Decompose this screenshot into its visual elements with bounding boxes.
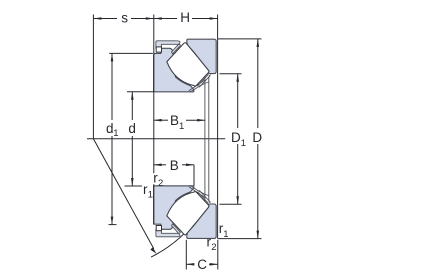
svg-text:s: s xyxy=(121,10,128,25)
svg-text:B: B xyxy=(170,158,179,173)
svg-text:H: H xyxy=(180,10,190,25)
svg-text:1: 1 xyxy=(113,128,118,139)
svg-text:D: D xyxy=(231,130,241,145)
svg-text:2: 2 xyxy=(211,242,216,253)
svg-text:C: C xyxy=(197,257,207,272)
svg-text:d: d xyxy=(128,121,136,136)
svg-text:1: 1 xyxy=(241,138,246,149)
svg-text:D: D xyxy=(252,130,262,145)
svg-text:1: 1 xyxy=(148,190,153,201)
svg-text:1: 1 xyxy=(223,229,228,240)
svg-text:2: 2 xyxy=(158,178,163,189)
svg-text:1: 1 xyxy=(179,121,184,132)
svg-text:B: B xyxy=(170,113,179,128)
